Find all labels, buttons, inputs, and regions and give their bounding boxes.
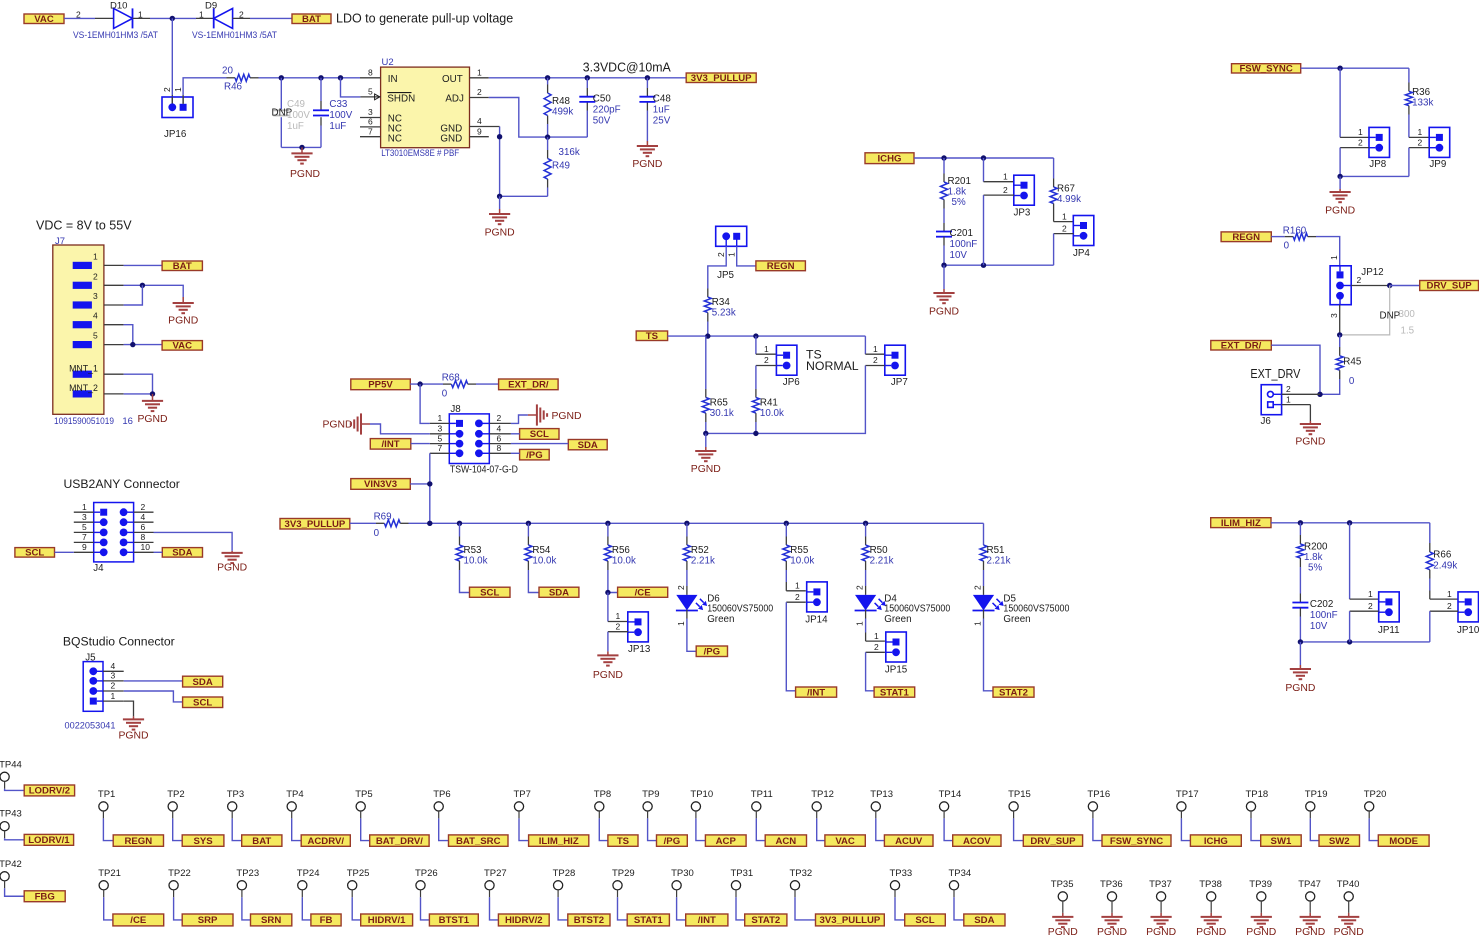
wire PP5V down to J8 pin1	[420, 384, 430, 423]
svg-text:1: 1	[1003, 171, 1008, 181]
net label /PG J8	[520, 449, 550, 460]
wire pgnd drop	[499, 196, 501, 209]
svg-text:1: 1	[1329, 255, 1339, 260]
svg-text:BTST2: BTST2	[574, 915, 604, 926]
svg-text:VDC = 8V to 55V: VDC = 8V to 55V	[36, 219, 132, 233]
svg-text:1: 1	[1418, 127, 1423, 137]
resistor R46	[227, 77, 236, 79]
wire J8 pin2 to pgnd	[511, 415, 528, 423]
connector J7 box	[53, 245, 104, 414]
svg-text:JP10: JP10	[1457, 625, 1479, 636]
node J7 MNT join	[150, 391, 155, 396]
connector J8 stub L7	[430, 452, 450, 454]
svg-text:TP47: TP47	[1298, 879, 1321, 890]
svg-text:BTST1: BTST1	[439, 915, 470, 926]
svg-text:TSW-104-07-G-D: TSW-104-07-G-D	[450, 464, 518, 475]
svg-text:TP5: TP5	[355, 789, 372, 800]
wire JP13 pin2 down	[607, 632, 609, 652]
jumper JP3	[1014, 175, 1035, 205]
wire J7 pin2	[124, 285, 184, 297]
svg-text:2: 2	[1062, 223, 1067, 233]
svg-text:PGND: PGND	[290, 169, 320, 180]
jumper JP13	[628, 612, 649, 642]
svg-text:TP33: TP33	[890, 868, 913, 879]
svg-text:8: 8	[497, 443, 502, 453]
svg-text:1: 1	[173, 87, 183, 92]
resistor R53	[459, 523, 461, 536]
svg-text:1.8k: 1.8k	[1304, 552, 1323, 563]
connector J4 left pin 9	[94, 551, 100, 553]
svg-text:REGN: REGN	[1232, 232, 1260, 243]
svg-text:J4: J4	[93, 563, 104, 574]
svg-text:/INT: /INT	[381, 439, 399, 450]
net label 3V3_PULLUP TP32	[816, 914, 885, 926]
node gnd pgnd	[497, 194, 502, 199]
net label /INT TP30	[686, 914, 728, 926]
jumper JP4	[1073, 216, 1094, 246]
wire D6 to /PG	[686, 610, 688, 619]
net label SDA J5	[183, 676, 223, 687]
svg-text:1uF: 1uF	[287, 121, 304, 132]
jumper JP8	[1369, 127, 1390, 157]
svg-text:1: 1	[1358, 127, 1363, 137]
jumper JP7 pin1 stub	[865, 353, 884, 355]
svg-text:R41: R41	[760, 398, 778, 409]
pin 9 GND stub	[470, 136, 489, 138]
svg-text:2: 2	[873, 355, 878, 365]
wire D10 to D9	[133, 17, 151, 19]
svg-text:ACDRV/: ACDRV/	[307, 836, 344, 847]
svg-text:BAT_SRC: BAT_SRC	[456, 836, 501, 847]
capacitor C49 DNP ghost	[273, 109, 289, 111]
net label REGN JP5	[756, 261, 806, 271]
net label HIDRV/2 TP27	[498, 914, 549, 926]
resistor R45	[1336, 356, 1343, 370]
svg-text:10.0k: 10.0k	[464, 556, 488, 567]
wire ICHG pgnd drop	[943, 265, 945, 289]
svg-text:VS-1EMH01HM3 /5AT: VS-1EMH01HM3 /5AT	[192, 30, 277, 40]
wire D5 to STAT2	[983, 610, 985, 619]
svg-text:GND: GND	[440, 133, 462, 144]
wire R54 to SDA	[527, 561, 529, 570]
ground PGND J5	[133, 716, 135, 719]
svg-text:TP16: TP16	[1087, 789, 1110, 800]
wire J7 pin1 to BAT	[124, 264, 163, 266]
node VIN3V3 join	[427, 481, 432, 486]
svg-text:TP2: TP2	[167, 789, 184, 800]
wire R67 to JP4	[1053, 204, 1055, 222]
ground PGND ILIM	[1299, 665, 1301, 669]
svg-text:ICHG: ICHG	[1204, 836, 1228, 847]
svg-text:4: 4	[111, 661, 116, 671]
svg-text:EXT_DR/: EXT_DR/	[508, 380, 549, 391]
connector J8 stub L1	[430, 422, 450, 424]
svg-text:SRP: SRP	[198, 915, 218, 926]
op-amp U2 box	[381, 67, 470, 148]
wire /INT to J8 pin5	[411, 443, 430, 445]
node ADJ mid	[545, 134, 550, 139]
wire R55 to JP14	[785, 561, 787, 570]
svg-text:HIDRV/1: HIDRV/1	[368, 915, 406, 926]
svg-text:5: 5	[368, 87, 373, 97]
wire J8 pin4 to SCL	[511, 433, 520, 435]
connector J4 stub L1	[74, 511, 94, 513]
wire J8 pin8 to /PG	[511, 452, 520, 454]
node TS bottom R41	[753, 431, 758, 436]
connector J7 pin 3 stub	[104, 304, 124, 306]
ground PGND J8 pin3 sym	[360, 413, 362, 434]
connector J4 left pin 3	[94, 521, 100, 523]
svg-text:/PG: /PG	[664, 836, 681, 847]
svg-text:JP5: JP5	[717, 270, 734, 281]
wire TS to JP7	[864, 336, 866, 354]
svg-text:2: 2	[141, 502, 146, 512]
pin 7 NC stub	[360, 136, 381, 138]
svg-text:R160: R160	[1283, 226, 1307, 237]
net label ACUV TP13	[884, 835, 933, 846]
svg-text:2: 2	[1286, 384, 1291, 394]
connector J5 pin 2	[97, 690, 103, 692]
svg-text:1: 1	[855, 621, 865, 626]
svg-text:R65: R65	[710, 398, 729, 409]
connector J4 stub L9	[74, 551, 94, 553]
connector J5 box	[83, 662, 103, 712]
svg-text:SCL: SCL	[530, 429, 549, 440]
wire JP5 pin2 down	[708, 246, 726, 288]
svg-text:2: 2	[716, 252, 726, 257]
svg-text:300: 300	[1399, 309, 1416, 320]
wire D4 to JP15	[865, 610, 867, 619]
svg-text:2: 2	[93, 271, 98, 281]
jumper JP13 pin2 stub	[608, 631, 628, 633]
wire FSW bottom	[1340, 175, 1409, 177]
node ILIM gnd	[1298, 639, 1303, 644]
connector J8 pin 1 square	[456, 420, 463, 427]
svg-text:499k: 499k	[552, 107, 573, 118]
svg-text:2.21k: 2.21k	[691, 556, 715, 567]
connector J4 stub L7	[74, 541, 94, 543]
jumper JP15 pin2 stub	[866, 651, 885, 653]
svg-text:VAC: VAC	[835, 836, 855, 847]
ground PGND TP35	[1062, 913, 1064, 917]
svg-text:REGN: REGN	[124, 836, 152, 847]
net label 3V3_PULLUP rail	[280, 519, 350, 530]
jumper JP12 box	[1330, 266, 1351, 305]
svg-text:VS-1EMH01HM3 /5AT: VS-1EMH01HM3 /5AT	[73, 30, 158, 40]
jumper JP11 pin2 stub	[1350, 610, 1379, 612]
wire JP3 pin2 down	[983, 195, 985, 265]
svg-text:SCL: SCL	[193, 697, 212, 708]
svg-text:0: 0	[442, 389, 448, 400]
svg-text:J6: J6	[1261, 416, 1272, 427]
svg-text:16: 16	[122, 416, 133, 427]
svg-text:LODRV/2: LODRV/2	[29, 786, 70, 797]
svg-text:SHDN: SHDN	[387, 93, 415, 104]
node rail R54	[526, 521, 531, 526]
svg-text:EXT_DR/: EXT_DR/	[1221, 340, 1262, 351]
ground PGND J8 pin2 sym	[536, 404, 538, 425]
svg-text:TP38: TP38	[1199, 879, 1222, 890]
node J7 pin2-3	[140, 283, 145, 288]
wire FSW_SYNC rail	[1301, 67, 1409, 69]
net label /PG TP9	[657, 835, 688, 846]
resistor R48 wire	[547, 78, 549, 85]
jumper JP12 pin3 stub	[1339, 305, 1341, 335]
ground PGND TP39	[1260, 913, 1262, 917]
connector J5 pin 4	[97, 670, 103, 672]
svg-text:5: 5	[93, 331, 98, 341]
svg-text:10.0k: 10.0k	[790, 556, 814, 567]
svg-text:1: 1	[82, 502, 87, 512]
wire GND pins down	[499, 127, 501, 197]
svg-text:4: 4	[93, 311, 98, 321]
diode D10	[114, 8, 133, 28]
wire R36 top	[1408, 68, 1410, 82]
resistor R56	[607, 523, 609, 536]
wire /CE down to JP13	[607, 593, 609, 622]
svg-text:TS: TS	[617, 836, 630, 847]
connector J4 stub R10	[134, 551, 154, 553]
svg-text:FSW_SYNC: FSW_SYNC	[1110, 836, 1163, 847]
wire OUT rail	[489, 77, 686, 79]
ground PGND TP36	[1111, 913, 1113, 917]
svg-text:DNP: DNP	[1380, 311, 1401, 322]
wire gnd bottom	[500, 195, 548, 197]
svg-text:PGND: PGND	[1246, 927, 1276, 937]
connector J8 right pin 4	[483, 433, 490, 435]
svg-text:2: 2	[1357, 275, 1362, 285]
svg-text:10.0k: 10.0k	[532, 556, 556, 567]
svg-text:TP36: TP36	[1100, 879, 1123, 890]
connector J8 stub R4	[489, 433, 511, 435]
svg-text:1.8k: 1.8k	[948, 187, 967, 198]
net label REGN TP1	[113, 835, 163, 846]
svg-text:C33: C33	[329, 99, 348, 110]
svg-text:ILIM_HIZ: ILIM_HIZ	[1221, 518, 1261, 529]
wire R65 top	[705, 336, 707, 389]
net label ACOV TP14	[953, 835, 1001, 846]
connector J8 left pin 7	[449, 452, 456, 454]
connector J4 box	[94, 503, 134, 562]
wire EXT_DR to J6	[1271, 345, 1320, 394]
svg-text:2: 2	[1358, 137, 1363, 147]
net label ILIM_HIZ	[1211, 518, 1271, 528]
node /CE tap	[605, 590, 610, 595]
svg-text:DRV_SUP: DRV_SUP	[1427, 281, 1473, 292]
svg-text:220pF: 220pF	[593, 105, 621, 116]
svg-text:PGND: PGND	[929, 307, 959, 318]
svg-text:100nF: 100nF	[1310, 610, 1338, 621]
net label SDA J8	[568, 440, 607, 450]
net label /PG rail	[696, 646, 727, 657]
svg-text:4: 4	[141, 512, 146, 522]
connector J8 stub R2	[489, 422, 511, 424]
svg-text:R200: R200	[1304, 542, 1328, 553]
wire R66 to JP10	[1429, 570, 1431, 579]
jumper JP8 pin1 stub	[1340, 136, 1369, 138]
node rail R53	[457, 521, 462, 526]
svg-text:TP31: TP31	[731, 868, 754, 879]
svg-text:1: 1	[973, 621, 983, 626]
wire R34 to TS	[707, 313, 709, 322]
jumper JP11 pin1 stub	[1350, 598, 1379, 600]
net label SRP TP22	[182, 914, 233, 926]
wire J5 pin1 to gnd	[124, 701, 134, 716]
jumper JP7	[885, 345, 906, 375]
jumper JP15	[886, 632, 907, 662]
net label SYS TP2	[182, 835, 224, 846]
connector J5 stub 1	[103, 700, 124, 702]
resistor R52	[686, 523, 688, 536]
net label SDA TP34	[964, 914, 1005, 926]
svg-text:2: 2	[874, 642, 879, 652]
net label ACN TP11	[765, 835, 806, 846]
net label ICHG TP17	[1190, 835, 1241, 846]
jumper JP15 pin1 stub	[866, 640, 885, 642]
wire JP11 pin1 drop	[1349, 523, 1351, 599]
svg-text:4: 4	[477, 116, 482, 126]
ground PGND caps	[301, 147, 303, 153]
svg-text:ICHG: ICHG	[878, 153, 902, 164]
svg-text:TP39: TP39	[1249, 879, 1272, 890]
node VAC-BAT junction	[170, 16, 175, 21]
wire VIN3V3 tap	[410, 483, 430, 485]
wire ADJ run	[489, 98, 588, 138]
svg-text:2: 2	[76, 10, 81, 20]
svg-text:JP7: JP7	[891, 377, 908, 388]
svg-text:SDA: SDA	[193, 677, 213, 688]
svg-text:JP15: JP15	[885, 664, 908, 675]
svg-text:/CE: /CE	[635, 587, 652, 598]
svg-text:ACUV: ACUV	[895, 836, 923, 847]
wire R68 to EXT_DR/	[476, 383, 499, 385]
svg-text:25V: 25V	[653, 116, 671, 127]
node FSW JP8	[1337, 66, 1342, 71]
wire R53 to SCL	[459, 561, 461, 570]
pin 3 NC stub	[360, 117, 381, 119]
wire J7 pin4	[124, 325, 133, 345]
node J7 pin4-5	[130, 342, 135, 347]
connector J7 pin bar 5	[73, 341, 92, 348]
jumper JP5	[716, 226, 747, 246]
svg-text:3: 3	[438, 424, 443, 434]
svg-text:/PG: /PG	[704, 646, 721, 657]
svg-text:1uF: 1uF	[653, 105, 670, 116]
ground PGND JP13	[607, 651, 609, 655]
svg-text:D10: D10	[110, 0, 127, 11]
node DRV_SUP tap	[1387, 283, 1392, 288]
svg-text:U2: U2	[382, 57, 394, 68]
node rail R50	[863, 521, 868, 526]
net label LODRV/2 TP44	[24, 785, 74, 796]
svg-text:PGND: PGND	[118, 731, 148, 742]
wire J8 pin6 to SDA	[511, 443, 568, 445]
jumper JP14	[807, 582, 828, 612]
net label VAC	[24, 14, 64, 24]
wire caps bottom	[281, 146, 321, 148]
svg-text:PGND: PGND	[1325, 206, 1355, 217]
svg-text:FBG: FBG	[35, 891, 55, 902]
wire SHDN jog	[341, 78, 361, 97]
svg-text:10V: 10V	[950, 250, 968, 261]
ground PGND C48	[646, 141, 648, 146]
net label HIDRV/1 TP25	[361, 914, 413, 926]
svg-text:ACN: ACN	[775, 836, 796, 847]
connector J4 stub R4	[134, 521, 154, 523]
wire J6 pin1 pgnd	[1309, 405, 1311, 421]
pin 5 SHDN stub	[360, 96, 380, 98]
resistor R51	[980, 545, 987, 561]
svg-text:TP26: TP26	[415, 868, 438, 879]
svg-text:REGN: REGN	[767, 261, 795, 272]
svg-text:6: 6	[141, 522, 146, 532]
net label SW2 TP19	[1319, 835, 1360, 846]
ground PGND U2	[499, 209, 501, 214]
svg-text:SYS: SYS	[193, 836, 213, 847]
svg-text:1: 1	[726, 252, 736, 257]
wire R201 top	[943, 158, 945, 174]
svg-text:TP14: TP14	[939, 789, 962, 800]
resistor R41	[752, 398, 759, 414]
node ILIM JP11 pin2	[1347, 639, 1352, 644]
svg-text:TP27: TP27	[484, 868, 507, 879]
node C33 tap	[318, 75, 323, 80]
svg-text:TP24: TP24	[297, 868, 320, 879]
ground PGND TS	[705, 447, 707, 451]
svg-text:8: 8	[141, 532, 146, 542]
svg-text:1: 1	[93, 251, 98, 261]
connector J8 left pin 5	[449, 443, 456, 445]
svg-text:NORMAL: NORMAL	[806, 359, 859, 373]
svg-text:20: 20	[222, 66, 233, 77]
svg-text:PGND: PGND	[1196, 927, 1226, 937]
svg-text:BAT_DRV/: BAT_DRV/	[376, 836, 423, 847]
svg-text:TP32: TP32	[790, 868, 813, 879]
wire R160 to JP12	[1316, 237, 1340, 266]
wire ICHG rail	[914, 157, 1054, 159]
svg-text:SDA: SDA	[974, 915, 994, 926]
svg-text:STAT2: STAT2	[999, 687, 1028, 698]
svg-text:1: 1	[795, 581, 800, 591]
net label VAC J7	[162, 341, 202, 351]
svg-text:JP13: JP13	[628, 644, 651, 655]
node rail R52	[684, 521, 689, 526]
svg-text:C49: C49	[287, 99, 305, 110]
net label TS TP8	[608, 835, 638, 846]
node ILIM JP11	[1347, 520, 1352, 525]
capacitor C49 wire ghost	[280, 78, 282, 110]
node C48 top	[645, 75, 650, 80]
connector J8 stub R6	[489, 443, 511, 445]
wire JP3 pin1 drop	[983, 158, 985, 182]
connector J8 left pin 3	[449, 433, 456, 435]
node FSW gnd	[1337, 174, 1342, 179]
svg-text:R54: R54	[532, 545, 551, 556]
connector J4 right pin 6	[127, 531, 133, 533]
node rail R55	[784, 521, 789, 526]
svg-text:OUT: OUT	[442, 74, 463, 85]
pin 1 OUT stub	[470, 77, 489, 79]
svg-text:0022053041: 0022053041	[65, 721, 116, 732]
svg-text:2: 2	[855, 585, 865, 590]
ground PGND TP47	[1309, 913, 1311, 917]
svg-text:0: 0	[374, 528, 380, 539]
resistor R65	[702, 398, 709, 414]
net label /INT J8	[370, 439, 411, 450]
connector J4 right pin 4	[127, 521, 133, 523]
svg-text:2: 2	[111, 681, 116, 691]
connector J8 right pin 8	[483, 452, 490, 454]
